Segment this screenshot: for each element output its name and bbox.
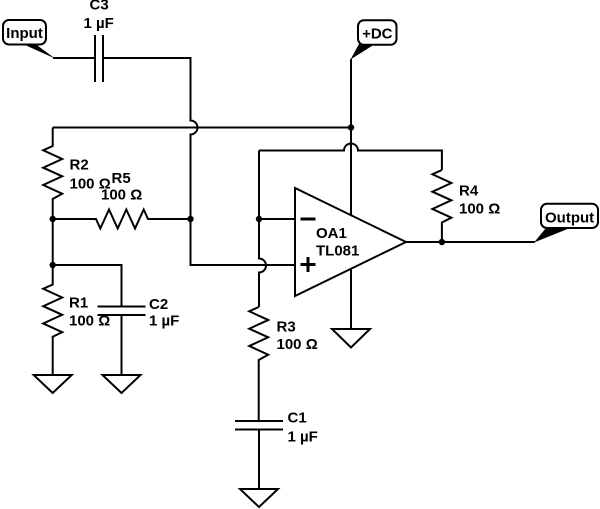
resistor R5 [53, 170, 191, 229]
wire output [406, 241, 535, 243]
wire input to C3 [53, 57, 95, 59]
svg-text:OA1: OA1 [316, 225, 347, 242]
ground (op-amp) [332, 329, 370, 348]
wire minus node down to R3 (hop over +input wire) [259, 219, 266, 307]
wire +DC down to op-amp top [350, 59, 352, 215]
svg-text:C2: C2 [149, 296, 168, 313]
ground (C2) [103, 375, 141, 393]
wire feedback left vertical [258, 151, 260, 220]
wire to C2 [53, 265, 122, 307]
ground (R1) [34, 375, 72, 393]
svg-text:R3: R3 [277, 319, 296, 336]
svg-text:C1: C1 [288, 410, 307, 427]
svg-text:1 µF: 1 µF [84, 15, 114, 32]
capacitor C3 [84, 0, 114, 82]
svg-text:R4: R4 [459, 183, 479, 200]
wire C3 to node column (with hop over y=127 wire) [103, 58, 198, 219]
Output label [534, 204, 598, 243]
svg-text:100 Ω: 100 Ω [277, 336, 318, 353]
wire op-amp bottom to ground [350, 269, 352, 329]
junction node dots [348, 124, 354, 130]
wire node row y=127 [53, 127, 351, 129]
op-amp plus symbol [301, 257, 316, 272]
svg-text:+DC: +DC [362, 26, 393, 43]
wire C1 to ground [258, 430, 260, 490]
ground (C1) [240, 489, 278, 507]
wire inverting input [259, 218, 295, 220]
svg-text:R5: R5 [112, 170, 131, 187]
svg-text:R1: R1 [69, 295, 88, 312]
svg-text:1 µF: 1 µF [288, 429, 318, 446]
op-amp minus symbol [301, 218, 316, 221]
capacitor C2 [98, 296, 180, 330]
resistor R2 [43, 128, 111, 220]
svg-text:Input: Input [6, 25, 43, 42]
svg-text:R2: R2 [70, 157, 89, 174]
svg-text:100 Ω: 100 Ω [101, 187, 142, 204]
svg-text:1 µF: 1 µF [149, 313, 179, 330]
wire left rail y219 to y265 [52, 219, 54, 265]
wire feedback top (hop over +DC) [259, 144, 442, 170]
svg-text:TL081: TL081 [316, 243, 359, 260]
svg-text:C3: C3 [90, 0, 109, 14]
+DC label [351, 20, 397, 59]
resistor R3 [249, 307, 318, 421]
resistor R4 [432, 170, 500, 242]
svg-text:Output: Output [545, 209, 594, 226]
wire C2 to ground [121, 315, 123, 375]
wire noninverting input (from node column) [191, 219, 296, 265]
resistor R1 [43, 265, 110, 375]
op-amp U1 triangle [295, 188, 406, 296]
capacitor C1 [235, 410, 318, 446]
svg-text:100 Ω: 100 Ω [459, 201, 500, 218]
Input label [3, 20, 55, 59]
